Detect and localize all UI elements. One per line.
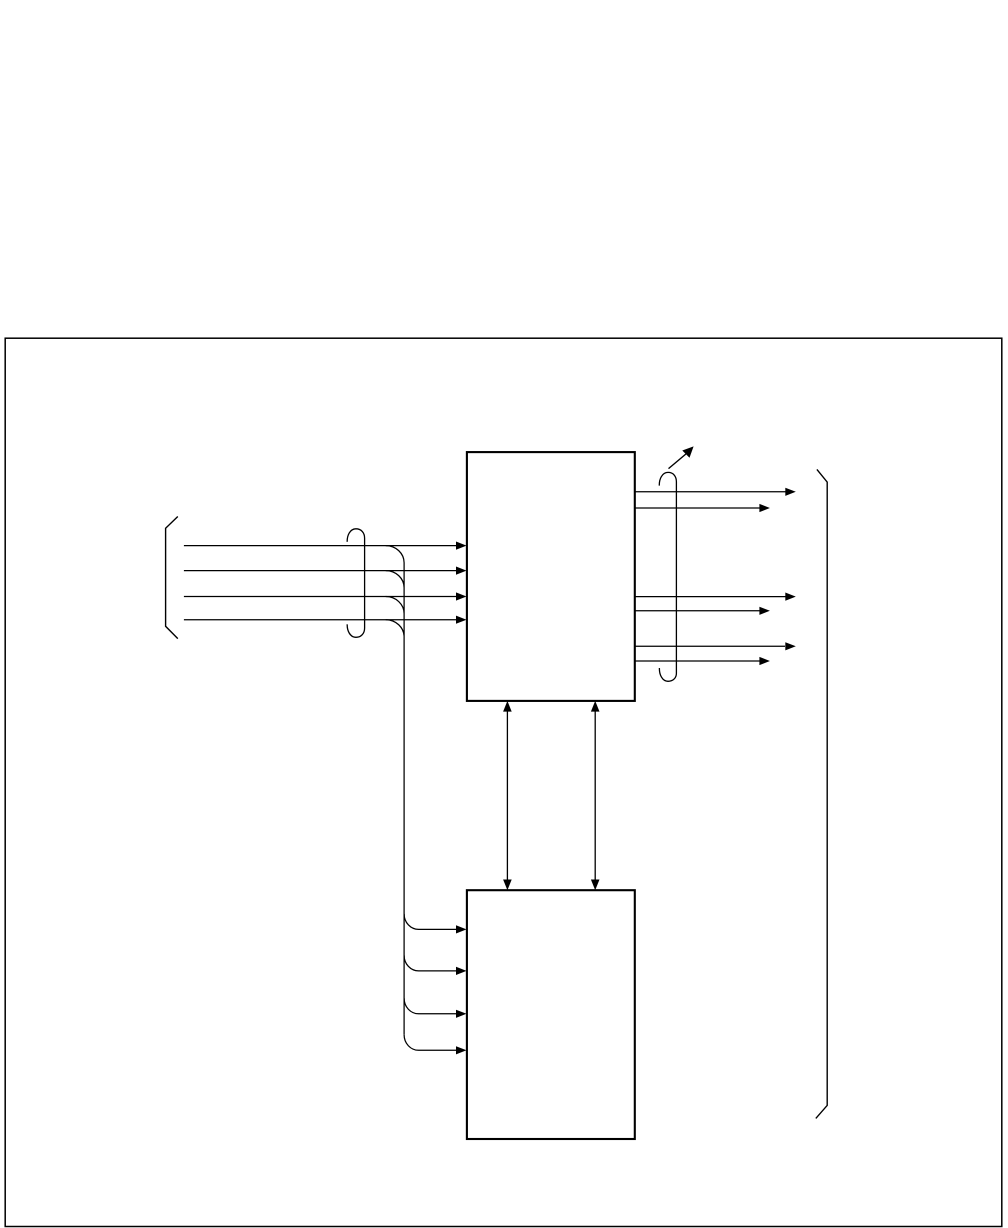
wire input 1 xyxy=(184,545,457,547)
wire branch bus (vertical) xyxy=(386,546,404,1035)
block U2 (bottom box) xyxy=(467,890,635,1139)
left input bracket xyxy=(166,517,178,639)
wire input 4 xyxy=(184,619,457,621)
wire fan-out 4 xyxy=(404,1035,457,1051)
right output bracket xyxy=(816,469,827,1118)
wire output 5 xyxy=(635,645,785,647)
cable group loop right xyxy=(659,472,676,681)
block U1 (top box) xyxy=(467,452,635,701)
wire output 2 xyxy=(635,507,760,509)
cable group loop left xyxy=(347,529,364,638)
wire fan-out 1 xyxy=(404,914,457,930)
bidirectional bus 2 xyxy=(594,711,596,879)
direction arrow (up-right) xyxy=(669,454,687,469)
wire output 6 xyxy=(635,660,760,662)
wire output 3 xyxy=(635,596,786,598)
wire fan-out 2 xyxy=(404,955,457,971)
wire output 1 xyxy=(635,491,786,493)
wire input 3 xyxy=(184,596,457,598)
wire input 2 xyxy=(184,570,457,572)
wire fan-out 3 xyxy=(404,998,457,1014)
wire output 4 xyxy=(635,610,760,612)
bidirectional bus 1 xyxy=(506,711,508,879)
